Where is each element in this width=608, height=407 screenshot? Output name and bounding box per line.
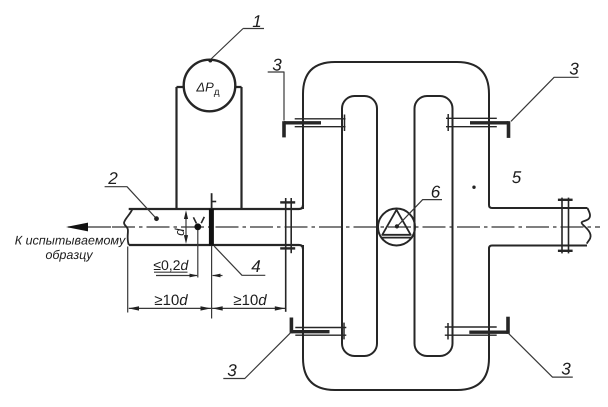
inlet flange tick inner (also 10d extension) [285, 198, 287, 312]
dim 10d arrow far right [275, 306, 285, 310]
orifice stem tick [212, 201, 217, 203]
dim text d (rotated) [175, 228, 185, 235]
leader line for label 6 [398, 200, 442, 226]
port 3 bottom-right stub lines [445, 326, 497, 328]
pipe 2 measuring section bottom edge [129, 245, 303, 249]
gauge column left wall [175, 87, 177, 208]
gauge text dP [196, 83, 219, 97]
label 3 bottom-right [562, 363, 571, 375]
inlet flange bottom cap [280, 247, 295, 249]
leader line for label 1 [210, 29, 264, 61]
orifice plate 4 (thick bar in pipe) [209, 209, 214, 246]
label 2 [108, 172, 117, 184]
label 3 top-right [570, 63, 579, 75]
gauge U1 circle (differential manometer) [184, 60, 236, 112]
dim 10d extension line left [127, 247, 129, 313]
leader dot 5 [472, 186, 475, 189]
leader dot 2 [154, 216, 159, 221]
text to tested specimen line 1 [15, 236, 126, 247]
label 3 top-left [273, 59, 282, 71]
fan 6 triangle [382, 210, 410, 235]
port 3 bottom-left end bar [290, 318, 294, 334]
port 3 bottom-left inner tick [343, 323, 345, 340]
orifice stem above pipe [211, 193, 213, 209]
label 1 [253, 15, 261, 27]
label 3 bottom-left [228, 364, 237, 376]
baffle loop left [342, 96, 377, 356]
dim d arrowhead down [184, 235, 188, 244]
outlet pipe right break squiggle [582, 208, 591, 243]
dim 0,2d right arrow [213, 275, 223, 277]
leader line for label 3 bottom-right [508, 333, 573, 377]
outlet flange top cap [558, 199, 573, 201]
leader line for label 4 [214, 246, 265, 275]
vessel 5 outer shell lower part [303, 245, 587, 390]
leader line for label 2 [105, 187, 157, 219]
port 3 top-left stub lines [295, 118, 346, 120]
leader line for label 3 top-left [268, 72, 284, 121]
dim 0,2d left line with arrow [156, 275, 197, 277]
probe V arm right [201, 217, 204, 223]
baffle loop right [415, 96, 453, 356]
gauge column right wall [240, 87, 242, 208]
probe V arm left [193, 217, 196, 223]
gauge column top edge [177, 86, 242, 88]
label 5 [512, 171, 521, 183]
probe extension line down [197, 230, 199, 278]
port 3 bottom-right thick axis [469, 331, 508, 334]
text to tested specimen line 2 [46, 250, 93, 262]
port 3 top-right stub lines [446, 117, 497, 119]
dim d arrowhead up [184, 210, 188, 219]
dim 0,2d underline shelf [154, 271, 188, 273]
vessel 5 outer shell upper part [303, 62, 588, 209]
leader line for label 3 bottom-left [223, 333, 290, 379]
port 3 top-right inner tick [447, 114, 449, 131]
dim d arrow line [185, 213, 187, 242]
outlet flange tick left [561, 198, 563, 254]
flow arrowhead [66, 223, 88, 232]
dim 10d arrows at orifice [201, 306, 211, 310]
label 6 [432, 186, 441, 198]
dim text 0,2d [154, 260, 189, 272]
port 3 bottom-left stub lines [295, 327, 346, 329]
pipe 2 measuring section top edge [129, 205, 303, 209]
leader dot 6 [395, 224, 399, 228]
port 3 bottom-left thick axis [291, 330, 330, 333]
outlet flange bottom cap [558, 250, 573, 252]
dim text 10d right [234, 294, 267, 305]
fan 6 chord [381, 237, 413, 239]
inlet flange top cap [280, 201, 295, 203]
probe node dot in pipe [194, 223, 201, 230]
port 3 bottom-right inner tick [447, 323, 449, 340]
dim text 10d left [155, 294, 188, 305]
wire: flow arrow shaft to specimen [68, 226, 111, 228]
outlet flange tick right [568, 198, 570, 254]
centerline (pipe axis, dash-dot) [112, 226, 600, 228]
port 3 top-left end bar [282, 121, 286, 137]
dim 10d arrow far left [129, 306, 139, 310]
port 3 top-left thick axis [284, 121, 321, 124]
label 4 [251, 260, 260, 272]
leader dot 1 [208, 59, 212, 63]
port 3 bottom-right end bar [506, 317, 510, 334]
inlet flange tick outer [290, 198, 292, 253]
port 3 top-right thick axis [470, 121, 509, 124]
port 3 top-right end bar [507, 121, 511, 138]
pipe 2 left break squiggle [124, 209, 132, 245]
dim 10d dimension line [129, 307, 285, 309]
port 3 top-left inner tick [344, 115, 346, 132]
leader line for label 3 top-right [511, 77, 579, 121]
fan 6 circle [378, 209, 415, 246]
orifice extension line below [211, 246, 213, 319]
